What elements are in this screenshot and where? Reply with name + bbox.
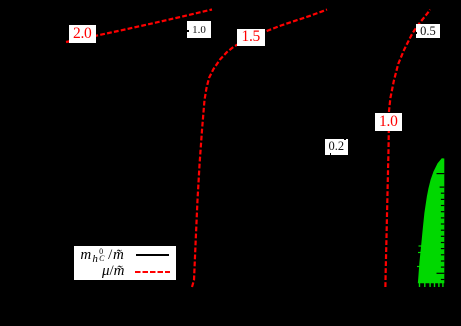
black contour stub at bottom edge of 0.2 label <box>330 153 332 155</box>
contour mu/m=2.0 red dashed diagonal <box>66 10 212 43</box>
label m_h/m = 0.2 (black) <box>325 139 349 155</box>
label m_h/m = 0.5 (black) <box>416 24 440 39</box>
legend box <box>73 245 178 281</box>
green allowed region <box>418 158 445 283</box>
contour mu/m=1.5 red dashed <box>192 10 327 288</box>
legend entry m_hC0/m text <box>80 247 124 268</box>
right axis minor ticks over green <box>437 174 445 280</box>
contour mu/m=1.0 red dashed <box>385 10 430 288</box>
green hatch ticks below region bottom <box>420 283 443 287</box>
label mu/m = 2.0 (red) <box>69 25 97 43</box>
legend solid black line <box>136 254 170 256</box>
legend entry mu/m text <box>102 263 125 280</box>
green hatch notches on left boundary <box>417 246 422 267</box>
black contour stub at left edge of 0.5 label <box>416 32 418 34</box>
label mu/m = 1.5 (red) <box>237 29 265 46</box>
legend red dashed line <box>135 271 170 273</box>
label m_h/m = 1.0 (black) <box>187 21 211 38</box>
label mu/m = 1.0 (red) <box>375 113 402 131</box>
black contour stub at left edge of 1.0 label <box>187 30 189 32</box>
black contour stub at top edge of 0.2 label <box>344 139 346 141</box>
